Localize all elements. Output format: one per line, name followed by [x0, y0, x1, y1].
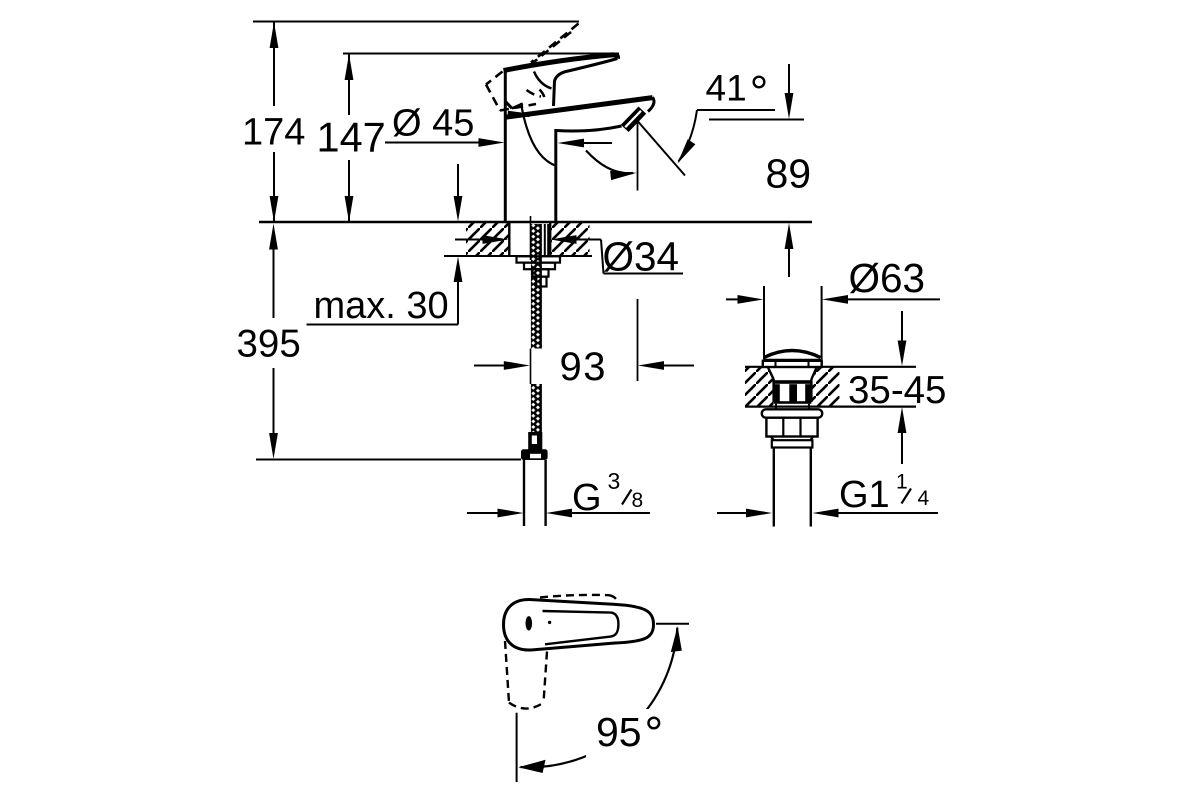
rotation reference vertical line: [516, 713, 518, 782]
svg-text:4: 4: [918, 487, 930, 510]
svg-text:1: 1: [896, 471, 908, 494]
dashed raised lever: [486, 24, 579, 111]
mounting nut step 3: [536, 277, 546, 287]
reference line 147 top: [343, 53, 619, 55]
drain neck lines: [776, 404, 809, 410]
drain collar: [771, 437, 813, 448]
counter bottom line: [444, 255, 592, 257]
dimension 147: [317, 54, 386, 222]
drain extension lines: [764, 286, 822, 360]
top view dashed blade: [540, 595, 618, 602]
lever blade underside and neck: [554, 59, 618, 107]
dimension G 3/8: [467, 468, 650, 519]
spout bottom edge: [556, 126, 622, 131]
dimension diameter 34: [455, 234, 683, 280]
aerator: [621, 107, 646, 133]
svg-text:G1: G1: [839, 474, 890, 516]
counter hatch left: [466, 223, 509, 256]
shank edges: [509, 222, 550, 256]
svg-text:G: G: [572, 477, 602, 519]
dimension G1 1/4: [717, 471, 938, 518]
svg-text:395: 395: [237, 323, 301, 366]
hose end collar: [528, 432, 542, 450]
svg-text:95: 95: [596, 709, 642, 755]
drain band: [774, 380, 812, 384]
basin deck hatch right: [812, 367, 840, 406]
drain rim: [763, 361, 822, 367]
lever joint curve: [534, 72, 552, 89]
svg-text:8: 8: [632, 489, 644, 512]
dimension 395: [237, 224, 301, 460]
dimension 89: [766, 64, 812, 277]
rotation reference horizontal line: [656, 623, 689, 625]
mounting nut step 2: [533, 269, 549, 276]
faucet body left edge: [504, 71, 507, 222]
braided hose upper: [531, 224, 542, 349]
drain seal washer: [762, 409, 822, 417]
dimension 35-45: [848, 311, 946, 464]
svg-text:147: 147: [317, 114, 386, 161]
counter top line: [259, 221, 812, 223]
dimension diameter 63: [726, 255, 940, 304]
svg-text:89: 89: [766, 151, 812, 197]
hose end nut: [521, 449, 548, 460]
svg-text:Ø63: Ø63: [849, 255, 926, 301]
svg-text:93: 93: [560, 345, 608, 389]
dimension 95 degrees arc: [518, 626, 682, 773]
braided hose lower: [531, 384, 542, 433]
faucet body right edge: [554, 129, 557, 221]
counter hatch right: [551, 223, 590, 256]
drain locknut: [766, 418, 817, 437]
top view lever inner face: [543, 611, 619, 644]
dimension max. 30: [307, 164, 463, 327]
mounting nut step 1: [524, 263, 555, 270]
reference line 174 top: [253, 21, 579, 23]
hose end reference line: [256, 459, 521, 461]
svg-text:41: 41: [706, 68, 747, 109]
spout top edge: [505, 98, 653, 118]
top view indicator dot: [526, 616, 552, 630]
basin deck lines: [745, 367, 916, 407]
lever blade top: [504, 55, 618, 71]
faucet centerline: [530, 216, 532, 384]
spout tip: [648, 97, 654, 111]
dimension 93: [474, 122, 694, 389]
svg-text:3: 3: [608, 468, 621, 494]
mounting washer: [517, 256, 561, 262]
svg-text:max. 30: max. 30: [314, 285, 449, 327]
svg-text:174: 174: [242, 112, 305, 154]
dimension 41 degrees: [638, 68, 804, 176]
dimension 174: [242, 22, 305, 222]
G3/8 tube: [524, 460, 546, 526]
dimension diameter 45: [385, 103, 612, 148]
drain dome: [764, 351, 821, 360]
drain overflow windows: [774, 384, 812, 404]
svg-text:Ø34: Ø34: [603, 234, 680, 280]
drain centerline stub: [788, 234, 790, 277]
drain funnel: [768, 367, 817, 402]
top view lever outline: [504, 599, 654, 650]
drain tailpipe: [774, 448, 811, 527]
basin deck hatch left: [745, 367, 773, 406]
lever front beak: [505, 101, 529, 115]
swing arc A: [521, 103, 557, 166]
svg-text:Ø 45: Ø 45: [392, 103, 474, 145]
top view dashed rotated lever: [505, 641, 547, 709]
pop-up rod lines: [545, 224, 548, 256]
swing arc B with arrow: [586, 151, 637, 181]
